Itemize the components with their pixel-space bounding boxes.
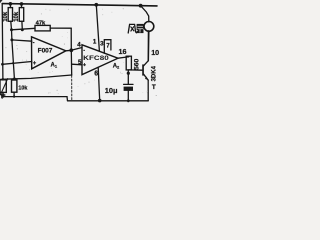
wire down to pin5 — [70, 50, 72, 75]
wire pin5 stub — [72, 63, 82, 66]
svg-text:A2: A2 — [113, 64, 120, 70]
node top rail / divider — [9, 2, 13, 6]
svg-text:560: 560 — [133, 58, 140, 70]
resistor R3 47k feedback — [35, 25, 50, 31]
op-amp U1 F007 — [32, 37, 66, 69]
svg-text:10: 10 — [151, 48, 159, 57]
wire to pin4 — [71, 48, 82, 51]
svg-text:+: + — [33, 61, 37, 67]
wire collector up — [147, 31, 149, 61]
svg-text:16: 16 — [119, 47, 127, 56]
wire R4 to ground — [13, 92, 15, 96]
wire fan bottom — [147, 31, 150, 61]
node cap junction — [127, 72, 130, 75]
transistor emitter — [144, 74, 149, 80]
node pin6 ground — [98, 99, 102, 103]
wire bottom ground rail left — [3, 96, 67, 98]
wire feedback drop — [70, 28, 72, 50]
node cap ground — [127, 99, 130, 102]
thermistor Rt — [0, 80, 6, 93]
resistor R5 560 — [126, 56, 131, 70]
wire pin6 to ground — [98, 67, 100, 100]
wire node to 47k — [12, 28, 36, 30]
svg-text:7: 7 — [106, 43, 110, 50]
svg-text:10k: 10k — [18, 85, 27, 91]
svg-text:10k: 10k — [14, 11, 20, 22]
node divider crossing — [12, 62, 14, 64]
node left rail divider — [2, 78, 5, 81]
wire F007 output — [66, 49, 71, 52]
wire dashed to ground — [71, 75, 73, 100]
svg-text:+: + — [83, 62, 86, 68]
wire rail to R1 — [9, 4, 11, 8]
resistor R4 10k lower — [12, 80, 17, 92]
svg-text:T: T — [152, 84, 156, 91]
wire divider lower — [12, 40, 15, 79]
svg-text:F007: F007 — [38, 47, 53, 54]
svg-text:6: 6 — [94, 71, 98, 78]
thermistor strike arrow — [1, 79, 8, 95]
svg-text:A1: A1 — [51, 63, 58, 69]
capacitor C1 negative plate — [124, 87, 133, 91]
svg-text:-: - — [33, 41, 35, 47]
node R1 bottom — [10, 28, 13, 31]
node R4 ground — [13, 95, 15, 97]
svg-text:3: 3 — [100, 40, 104, 47]
fan motor M — [144, 22, 154, 32]
node top rail pin1 — [94, 3, 98, 7]
wire ground rail step — [66, 97, 69, 101]
node inverting input — [10, 38, 13, 41]
wire fan top — [141, 6, 149, 22]
wire thermistor to ground — [2, 92, 4, 96]
wire A2 output — [118, 57, 129, 58]
wire R1 bottom — [10, 21, 13, 30]
capacitor C1 10u plate — [124, 83, 133, 85]
svg-text:10μ: 10μ — [105, 86, 118, 95]
wire emitter to ground — [147, 80, 149, 101]
transistor Q1 base bar — [142, 64, 144, 75]
svg-text:4: 4 — [77, 42, 81, 49]
wire divider mid — [11, 30, 13, 40]
resistor R1 10k — [8, 8, 12, 22]
svg-text:10k: 10k — [3, 11, 9, 22]
wire cap to ground — [127, 91, 129, 101]
svg-text:5: 5 — [78, 59, 82, 66]
corner scan artifact — [0, 0, 3, 3]
node divider wiper — [13, 77, 16, 80]
wire to F007 non-inverting input — [3, 62, 32, 65]
jumper pins 3-7 — [104, 40, 111, 53]
wire bottom ground rail right — [68, 100, 149, 102]
wire to cap — [127, 70, 129, 84]
node top rail fan — [139, 4, 143, 8]
wire divider node to pin5 — [1, 75, 72, 79]
emitter arrowhead — [145, 77, 148, 80]
label fan char feng — [128, 24, 136, 33]
svg-text:-: - — [83, 47, 85, 53]
resistor R2 10k — [19, 8, 23, 22]
wire 47k right — [50, 27, 71, 29]
wire rail to R2 — [21, 4, 23, 8]
transistor collector — [144, 61, 149, 66]
node output junction — [69, 48, 73, 52]
wire left rail — [1, 4, 4, 80]
node R2 bottom junction — [21, 28, 24, 31]
label fan char shan — [137, 24, 144, 33]
wire R2 bottom — [21, 21, 23, 29]
comparator U2 KFC80 — [82, 45, 118, 75]
svg-text:3DK4: 3DK4 — [151, 65, 157, 81]
svg-text:KFC80: KFC80 — [83, 55, 109, 62]
node + input left rail — [1, 63, 4, 66]
svg-text:1: 1 — [93, 38, 97, 45]
wire pin1 to rail — [96, 5, 99, 52]
wire to F007 inverting input — [12, 40, 32, 41]
wire base — [129, 69, 143, 71]
node top rail R2 — [20, 2, 24, 6]
node thermistor ground — [2, 95, 4, 97]
wire top supply rail — [2, 4, 157, 6]
